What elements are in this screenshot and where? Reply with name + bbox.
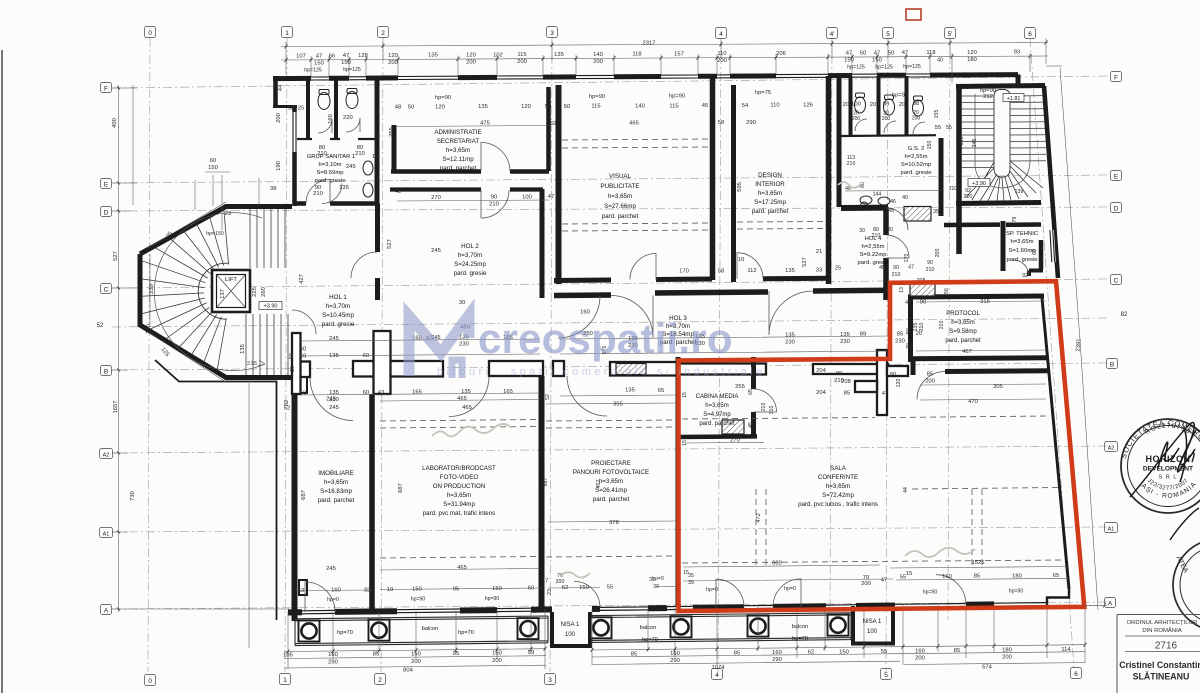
svg-text:465: 465 xyxy=(462,405,472,411)
svg-text:210: 210 xyxy=(761,403,767,412)
top overall chain xyxy=(281,43,1048,47)
lift cross diagonals xyxy=(217,275,246,308)
svg-text:100: 100 xyxy=(851,102,861,108)
walk line xyxy=(975,94,1030,188)
svg-text:110: 110 xyxy=(770,103,779,109)
svg-text:PUBLICITATE: PUBLICITATE xyxy=(601,183,640,190)
svg-text:47: 47 xyxy=(316,53,322,59)
label PROIECTARE xyxy=(573,460,649,503)
svg-text:54: 54 xyxy=(742,103,749,109)
svg-text:2.55: 2.55 xyxy=(247,361,257,367)
laborator dim lines xyxy=(380,400,676,571)
svg-text:85: 85 xyxy=(631,652,637,658)
CABINA east wall xyxy=(751,357,756,437)
spine chunk 353-443 xyxy=(353,361,443,377)
STAMPS xyxy=(1119,418,1200,513)
svg-text:hp=90: hp=90 xyxy=(485,596,500,602)
svg-text:200: 200 xyxy=(411,659,421,665)
svg-text:85: 85 xyxy=(927,372,933,378)
toilet block left jog xyxy=(273,105,297,108)
svg-text:creospatii.ro: creospatii.ro xyxy=(478,315,733,362)
svg-text:135: 135 xyxy=(625,388,635,394)
svg-text:h=3,65m: h=3,65m xyxy=(324,479,348,486)
svg-text:hp=125: hp=125 xyxy=(875,64,893,70)
svg-text:80: 80 xyxy=(890,372,896,378)
dims above octagon xyxy=(148,172,259,382)
svg-text:20: 20 xyxy=(899,102,905,108)
small red mark top xyxy=(906,9,921,20)
corridor dims row xyxy=(284,324,922,411)
svg-text:39: 39 xyxy=(653,584,659,590)
svg-text:457: 457 xyxy=(596,480,602,489)
svg-text:10: 10 xyxy=(738,257,744,263)
svg-text:hp=0: hp=0 xyxy=(327,597,339,603)
svg-text:155: 155 xyxy=(934,110,940,119)
spine chunk W end xyxy=(294,362,310,378)
sala pier cross vertical xyxy=(877,350,887,415)
svg-text:pard. parchet: pard. parchet xyxy=(602,213,639,220)
svg-text:687: 687 xyxy=(398,483,404,493)
svg-text:135: 135 xyxy=(478,104,488,110)
bottom wall window thin lines xyxy=(302,603,1047,614)
svg-text:212: 212 xyxy=(983,94,993,100)
svg-text:180: 180 xyxy=(967,57,977,63)
VP west wall (axis3 east) xyxy=(556,85,562,284)
svg-text:305: 305 xyxy=(993,384,1003,390)
svg-text:birouri , spatii comerciale si: birouri , spatii comerciale si industria… xyxy=(437,366,766,378)
TOP RIGHT STAIR xyxy=(961,90,1046,202)
svg-text:52: 52 xyxy=(288,106,294,112)
svg-text:hp=90: hp=90 xyxy=(669,94,685,100)
rooms south wall upper line xyxy=(554,278,830,280)
GS2 stall partitions xyxy=(851,76,907,135)
spine chunk 554-564 xyxy=(553,361,564,376)
svg-text:62: 62 xyxy=(562,585,568,591)
room interior dims xyxy=(301,394,619,595)
svg-text:30: 30 xyxy=(859,228,865,234)
svg-text:6: 6 xyxy=(1074,671,1078,678)
svg-text:89: 89 xyxy=(883,101,889,107)
svg-text:DESIGN: DESIGN xyxy=(758,172,782,179)
sink ovals xyxy=(860,196,872,204)
svg-text:65: 65 xyxy=(658,388,664,394)
svg-text:G.S. 2: G.S. 2 xyxy=(908,146,925,152)
svg-text:150: 150 xyxy=(579,585,589,591)
svg-text:E: E xyxy=(1114,173,1119,180)
toilet block south wall with door gap xyxy=(295,201,378,206)
svg-text:82: 82 xyxy=(1121,312,1128,318)
balcony rail west strip xyxy=(295,616,548,646)
svg-text:107: 107 xyxy=(296,54,306,60)
svg-text:40: 40 xyxy=(937,58,943,64)
svg-text:h=2,55m: h=2,55m xyxy=(904,154,927,160)
svg-text:62: 62 xyxy=(808,650,814,656)
label HOL 2 xyxy=(454,243,487,277)
door corridor north 1 xyxy=(611,296,653,338)
svg-text:D: D xyxy=(1114,205,1119,212)
svg-text:hp=90: hp=90 xyxy=(892,93,908,99)
left wall notches xyxy=(299,377,307,393)
HOL2 east wall xyxy=(540,189,545,298)
svg-text:139: 139 xyxy=(1015,189,1024,195)
level box +3.90 xyxy=(259,302,282,310)
svg-text:245: 245 xyxy=(329,336,339,342)
svg-text:118: 118 xyxy=(632,52,641,58)
svg-text:47: 47 xyxy=(881,578,887,584)
svg-text:48: 48 xyxy=(395,105,401,111)
svg-text:527: 527 xyxy=(802,257,808,267)
label VISUAL PUBLICITATE xyxy=(601,173,640,220)
svg-text:1657: 1657 xyxy=(113,401,119,414)
svg-text:55: 55 xyxy=(935,125,941,131)
wc oval 1 xyxy=(318,93,330,110)
sanitar sill line xyxy=(297,138,375,140)
svg-text:204: 204 xyxy=(816,390,826,396)
svg-text:60: 60 xyxy=(363,353,369,359)
svg-text:140: 140 xyxy=(593,52,603,58)
GS2 east wall xyxy=(939,138,944,216)
svg-text:200: 200 xyxy=(717,58,727,64)
level boxes xyxy=(1003,94,1024,102)
svg-text:290: 290 xyxy=(772,657,782,663)
top wall window thin lines xyxy=(311,74,930,80)
svg-text:110: 110 xyxy=(717,51,726,57)
svg-text:160: 160 xyxy=(670,651,680,657)
svg-text:A2: A2 xyxy=(1108,445,1115,451)
WC FIXTURES top-left toilets xyxy=(318,89,373,198)
svg-text:128: 128 xyxy=(358,53,368,59)
spine pier imobiliare/laborator xyxy=(374,331,391,394)
door stall 2 xyxy=(346,118,360,132)
svg-text:210: 210 xyxy=(355,151,365,157)
svg-text:1525: 1525 xyxy=(972,560,985,566)
svg-text:290: 290 xyxy=(670,658,680,664)
svg-text:hp=90: hp=90 xyxy=(923,590,938,596)
svg-text:+3.90: +3.90 xyxy=(972,181,986,187)
axis B xyxy=(112,363,1108,370)
svg-text:160: 160 xyxy=(915,648,925,654)
axis E xyxy=(112,175,1108,183)
svg-text:180: 180 xyxy=(1002,648,1012,654)
DI east wall (axis4' west) xyxy=(826,76,832,284)
svg-text:52: 52 xyxy=(545,394,551,400)
svg-text:47: 47 xyxy=(874,50,880,56)
svg-text:365: 365 xyxy=(959,137,965,146)
svg-text:270: 270 xyxy=(431,195,441,201)
admin dim lines xyxy=(397,126,940,202)
svg-text:465: 465 xyxy=(629,121,639,127)
svg-text:150: 150 xyxy=(844,58,854,64)
svg-text:2317: 2317 xyxy=(643,41,656,47)
svg-text:LIFT: LIFT xyxy=(225,277,237,283)
svg-text:15: 15 xyxy=(682,392,688,398)
hatch shaft corridor3 xyxy=(616,364,646,375)
hol4 east wall with door gap xyxy=(883,207,889,300)
GRID AXES xyxy=(112,38,1108,672)
svg-text:30: 30 xyxy=(906,343,912,349)
corridor wall below stairs xyxy=(944,222,1000,227)
svg-text:47: 47 xyxy=(846,51,852,57)
svg-text:6: 6 xyxy=(1028,31,1032,38)
DIMENSION LINES xyxy=(112,39,1098,670)
WC FIXTURES GS2 xyxy=(855,93,924,209)
door hol2 top xyxy=(481,190,509,218)
svg-text:135: 135 xyxy=(428,53,438,59)
hp=90 row under top wall xyxy=(288,88,996,131)
svg-text:55: 55 xyxy=(881,649,887,655)
svg-text:150: 150 xyxy=(492,650,502,656)
ADMIN south wall with door gap xyxy=(391,169,549,174)
ROOM LABELS xyxy=(307,129,1039,643)
svg-text:47: 47 xyxy=(542,579,548,585)
svg-text:15: 15 xyxy=(683,570,689,576)
svg-text:270: 270 xyxy=(730,438,740,444)
axis A1 xyxy=(112,527,1108,532)
svg-text:ADMINISTRATIE: ADMINISTRATIE xyxy=(434,129,481,136)
door tehnic xyxy=(1013,260,1029,276)
svg-text:A: A xyxy=(104,607,109,614)
svg-text:609: 609 xyxy=(772,561,782,567)
svg-text:B: B xyxy=(104,368,108,375)
axis 5 xyxy=(886,38,888,672)
svg-text:200: 200 xyxy=(935,249,941,258)
door bottom balcony 1 xyxy=(305,582,335,612)
svg-text:260: 260 xyxy=(261,287,267,297)
grid bubbles bottom xyxy=(145,668,1082,686)
svg-text:E: E xyxy=(104,181,109,188)
svg-text:65: 65 xyxy=(748,389,754,395)
svg-text:pard. parchet: pard. parchet xyxy=(318,497,355,504)
svg-text:467: 467 xyxy=(962,349,972,355)
svg-text:48: 48 xyxy=(395,189,401,195)
svg-text:C: C xyxy=(104,286,109,293)
svg-text:15: 15 xyxy=(682,440,688,446)
svg-text:S=72.42mp: S=72.42mp xyxy=(822,492,854,499)
protocol inner dim lines xyxy=(916,301,1046,400)
svg-text:150: 150 xyxy=(314,60,324,66)
svg-text:210: 210 xyxy=(847,161,856,167)
svg-text:VISUAL: VISUAL xyxy=(609,173,632,180)
svg-text:20: 20 xyxy=(870,102,876,108)
svg-text:93: 93 xyxy=(1014,50,1020,56)
svg-text:SECRETARIAT: SECRETARIAT xyxy=(437,138,480,145)
balcony columns xyxy=(299,615,849,642)
svg-text:h=3,65m: h=3,65m xyxy=(446,147,470,154)
svg-text:PANOURI FOTOVOLTAICE: PANOURI FOTOVOLTAICE xyxy=(573,469,649,476)
label G.S. 2 xyxy=(900,146,932,176)
svg-text:10: 10 xyxy=(372,154,378,160)
letter bubbles left xyxy=(100,83,113,615)
svg-text:245: 245 xyxy=(329,405,339,411)
bottom window dims xyxy=(296,578,1068,590)
axis 5' xyxy=(948,38,950,620)
svg-text:150: 150 xyxy=(927,141,933,150)
svg-text:120: 120 xyxy=(388,53,398,59)
svg-text:S=12.11mp: S=12.11mp xyxy=(442,156,474,163)
terrace west extension line xyxy=(248,383,250,648)
svg-text:150: 150 xyxy=(872,57,882,63)
lift shaft inner xyxy=(217,275,246,308)
sala/protocol east slanted wall xyxy=(1042,298,1069,589)
svg-text:210: 210 xyxy=(313,191,323,197)
stair block south wall xyxy=(956,203,1041,204)
svg-text:95: 95 xyxy=(453,651,459,657)
svg-text:+1.81: +1.81 xyxy=(1007,96,1021,102)
svg-text:4: 4 xyxy=(715,672,719,679)
svg-text:85: 85 xyxy=(954,648,960,654)
svg-text:1: 1 xyxy=(283,677,287,684)
svg-text:120: 120 xyxy=(896,379,902,388)
svg-text:pard. parchet: pard. parchet xyxy=(752,208,789,215)
svg-text:35: 35 xyxy=(933,209,939,215)
svg-text:h=3,10m: h=3,10m xyxy=(318,162,341,168)
svg-text:200: 200 xyxy=(517,59,527,65)
NISA2 alcove xyxy=(853,606,893,644)
svg-text:85: 85 xyxy=(974,574,980,580)
svg-text:hp=70: hp=70 xyxy=(792,636,808,642)
svg-text:46: 46 xyxy=(890,199,896,205)
svg-text:115: 115 xyxy=(591,104,600,110)
svg-text:160: 160 xyxy=(331,588,341,594)
axis A xyxy=(112,602,1108,609)
DI west wall (axis4 east) xyxy=(731,85,736,282)
label NISA 1 east xyxy=(863,619,882,635)
door proiectare xyxy=(567,376,607,416)
top exterior wall thick segments xyxy=(273,75,1018,79)
svg-text:balcon: balcon xyxy=(792,624,808,630)
terrace edge lines xyxy=(155,360,277,620)
protocol dims xyxy=(834,287,1003,405)
svg-text:687: 687 xyxy=(301,490,307,500)
IMOBILIARE east wall xyxy=(369,394,375,609)
PROTOCOL south wall xyxy=(908,358,1048,359)
svg-text:52: 52 xyxy=(284,406,290,412)
svg-text:INTERIOR: INTERIOR xyxy=(755,181,785,188)
svg-text:200: 200 xyxy=(925,379,935,385)
svg-text:135: 135 xyxy=(461,389,471,395)
svg-text:210: 210 xyxy=(834,378,844,384)
door octagon east xyxy=(292,310,316,334)
spine chunk cabina north xyxy=(677,364,766,375)
svg-text:+3.90: +3.90 xyxy=(264,304,278,310)
svg-text:45: 45 xyxy=(888,208,894,214)
svg-text:J10: J10 xyxy=(949,186,957,192)
letter bubbles right xyxy=(1105,72,1122,608)
label SALA CONFERINTE xyxy=(798,465,878,508)
svg-text:210: 210 xyxy=(926,267,935,273)
corridor north wall xyxy=(554,290,888,295)
WATERMARK xyxy=(409,315,766,378)
svg-text:180: 180 xyxy=(1012,573,1022,579)
svg-text:hp=90: hp=90 xyxy=(435,95,451,101)
svg-text:pard. gresie: pard. gresie xyxy=(314,178,346,184)
svg-text:SALA: SALA xyxy=(830,465,847,472)
svg-text:90: 90 xyxy=(927,260,933,266)
svg-text:210: 210 xyxy=(892,272,901,278)
svg-text:26: 26 xyxy=(290,366,296,372)
label SP. TEHNIC xyxy=(1006,231,1039,263)
svg-text:32: 32 xyxy=(550,121,556,127)
svg-text:F: F xyxy=(104,85,108,92)
spine chunk 610-677 xyxy=(610,362,677,376)
svg-text:47: 47 xyxy=(548,194,554,200)
svg-text:50: 50 xyxy=(300,347,306,353)
svg-text:140: 140 xyxy=(635,104,645,110)
svg-text:150: 150 xyxy=(412,587,422,593)
svg-text:h=3,65m: h=3,65m xyxy=(599,478,623,485)
svg-text:F: F xyxy=(1114,74,1118,81)
svg-text:804: 804 xyxy=(403,668,413,674)
svg-text:25: 25 xyxy=(298,105,304,111)
SP TEHNIC south wall xyxy=(1029,271,1043,277)
svg-text:687: 687 xyxy=(543,478,549,487)
svg-text:114: 114 xyxy=(1061,647,1071,653)
door stall 1 xyxy=(318,119,332,133)
svg-text:135: 135 xyxy=(339,185,349,191)
svg-text:pard. gresie: pard. gresie xyxy=(900,170,932,176)
svg-text:179: 179 xyxy=(1012,217,1018,226)
door vp south xyxy=(630,254,656,280)
right slanted dim line xyxy=(1060,68,1098,610)
svg-text:115: 115 xyxy=(517,52,526,58)
svg-text:45: 45 xyxy=(879,265,885,271)
svg-text:239: 239 xyxy=(149,284,155,294)
svg-text:135: 135 xyxy=(785,333,795,339)
svg-text:310: 310 xyxy=(769,406,775,415)
svg-text:120: 120 xyxy=(435,105,445,111)
svg-text:h=3,65m: h=3,65m xyxy=(447,492,471,499)
svg-text:13: 13 xyxy=(899,287,905,293)
bottom chain east xyxy=(592,645,1085,650)
sala pier arm left xyxy=(855,381,877,392)
svg-text:220: 220 xyxy=(964,194,973,200)
door stair entry xyxy=(886,208,908,230)
wc oval right col 1 xyxy=(363,161,373,175)
hatch shaft protocol xyxy=(910,282,935,296)
label PROTOCOL xyxy=(945,311,981,344)
GS2 stall sill line xyxy=(841,134,936,137)
svg-text:150: 150 xyxy=(492,586,502,592)
svg-text:135: 135 xyxy=(329,353,339,359)
svg-text:hp=0: hp=0 xyxy=(784,586,796,592)
svg-text:210: 210 xyxy=(489,202,499,208)
door admin xyxy=(481,143,510,172)
svg-text:210: 210 xyxy=(317,151,327,157)
svg-text:2391: 2391 xyxy=(1076,338,1083,351)
SP TEHNIC east wall xyxy=(1039,240,1044,269)
svg-text:200: 200 xyxy=(882,116,891,122)
svg-text:230: 230 xyxy=(146,324,152,334)
central newel void xyxy=(994,90,1010,178)
svg-text:2: 2 xyxy=(378,677,382,684)
svg-text:CONFERINTE: CONFERINTE xyxy=(818,474,858,481)
hatch shaft GS2 xyxy=(904,207,931,222)
bottom extension verticals xyxy=(288,603,1085,669)
svg-text:527: 527 xyxy=(113,251,119,261)
svg-text:C: C xyxy=(1114,277,1119,284)
svg-text:35: 35 xyxy=(688,573,694,579)
svg-text:245: 245 xyxy=(346,164,356,170)
svg-text:105: 105 xyxy=(283,653,293,659)
door hol1 divider xyxy=(351,252,377,278)
corridor dim lines xyxy=(300,336,890,396)
toilet block right wall xyxy=(375,76,380,206)
spiral treads radial xyxy=(141,209,228,370)
svg-text:3: 3 xyxy=(548,677,552,684)
svg-text:200: 200 xyxy=(912,116,921,122)
bottom exterior wall thick segments xyxy=(288,604,994,612)
svg-text:43: 43 xyxy=(378,390,384,396)
